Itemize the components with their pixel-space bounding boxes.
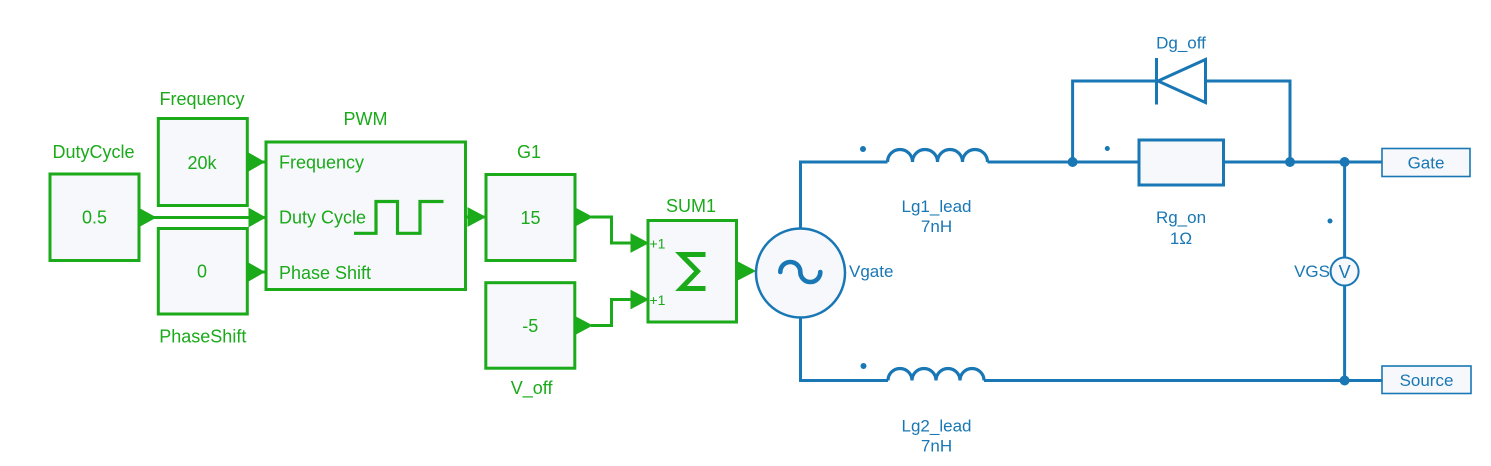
svg-text:Gate: Gate bbox=[1408, 154, 1445, 173]
svg-text:20k: 20k bbox=[187, 153, 217, 173]
output arrowhead of V_off bbox=[575, 317, 592, 335]
wire Vgate top to top rail bbox=[801, 162, 888, 229]
svg-text:0.5: 0.5 bbox=[82, 208, 107, 228]
node junction at VGS branch bottom bbox=[1340, 376, 1350, 386]
svg-text:PWM: PWM bbox=[344, 109, 388, 129]
PWM modulator block bbox=[266, 142, 466, 290]
output arrowhead of DutyCycle bbox=[139, 209, 156, 227]
wire VGS branch lower segment bbox=[1343, 286, 1346, 381]
diode Dg_off triangle bbox=[1158, 60, 1206, 103]
wire left leg of diode branch bbox=[1073, 81, 1156, 162]
svg-text:Dg_off: Dg_off bbox=[1156, 34, 1206, 53]
output arrowhead of SUM1 bbox=[738, 262, 756, 280]
svg-text:Frequency: Frequency bbox=[159, 89, 244, 109]
svg-text:-5: -5 bbox=[522, 316, 538, 336]
wire DutyCycle output to PWM Duty Cycle input bbox=[139, 216, 266, 219]
polarity dot of Rg_on bbox=[1105, 146, 1110, 151]
wire PWM output to G1 input bbox=[466, 216, 487, 219]
wire Vgate bottom to bottom rail bbox=[801, 318, 889, 381]
svg-text:V_off: V_off bbox=[511, 378, 554, 399]
input arrowhead at PWM Frequency port bbox=[248, 153, 265, 172]
svg-text:7nH: 7nH bbox=[921, 436, 952, 455]
svg-text:Rg_on: Rg_on bbox=[1156, 208, 1206, 227]
gain block G1 bbox=[486, 175, 575, 261]
node junction right of diode branch bbox=[1285, 157, 1295, 167]
svg-text:PhaseShift: PhaseShift bbox=[159, 327, 246, 347]
wire VGS branch upper segment bbox=[1343, 162, 1346, 258]
svg-text:1Ω: 1Ω bbox=[1170, 229, 1192, 248]
inductor Lg1_lead bbox=[888, 150, 988, 163]
svg-text:G1: G1 bbox=[517, 142, 541, 162]
terminal Gate bbox=[1382, 149, 1470, 177]
node junction at VGS branch top bbox=[1340, 157, 1350, 167]
svg-text:Frequency: Frequency bbox=[279, 153, 364, 173]
svg-text:SUM1: SUM1 bbox=[666, 196, 716, 216]
svg-text:Phase Shift: Phase Shift bbox=[279, 263, 371, 283]
input arrowhead at SUM1 lower port bbox=[631, 291, 648, 309]
svg-text:7nH: 7nH bbox=[921, 217, 952, 236]
svg-text:DutyCycle: DutyCycle bbox=[52, 142, 134, 162]
input arrowhead at G1 port bbox=[468, 208, 485, 226]
wire bottom rail Lg2_lead to Source terminal bbox=[984, 379, 1382, 382]
svg-text:0: 0 bbox=[197, 262, 207, 282]
wire Frequency output to PWM Frequency input bbox=[247, 161, 266, 164]
constant block PhaseShift bbox=[158, 229, 247, 315]
output arrowhead of G1 bbox=[575, 208, 592, 226]
constant block Frequency bbox=[158, 119, 247, 206]
wire Lg1_lead to Rg_on bbox=[988, 161, 1140, 164]
inductor Lg2_lead bbox=[888, 369, 984, 381]
wire right leg of diode branch bbox=[1205, 81, 1290, 162]
svg-text:Duty Cycle: Duty Cycle bbox=[279, 208, 366, 228]
wire G1 output to SUM1 upper input bbox=[591, 217, 632, 243]
voltmeter VGS bbox=[1331, 258, 1359, 286]
svg-text:Source: Source bbox=[1400, 371, 1454, 390]
sine icon of Vgate bbox=[780, 262, 820, 282]
input arrowhead at SUM1 upper port bbox=[631, 234, 648, 252]
PWM square-wave icon bbox=[354, 202, 444, 234]
svg-text:+1: +1 bbox=[650, 292, 666, 308]
summation block SUM1 bbox=[648, 221, 737, 323]
polarity dot of Lg1_lead bbox=[860, 146, 866, 152]
wire SUM1 output to Vgate bbox=[737, 270, 747, 273]
svg-text:15: 15 bbox=[520, 208, 540, 228]
resistor Rg_on bbox=[1139, 140, 1224, 185]
svg-text:Lg2_lead: Lg2_lead bbox=[902, 417, 972, 436]
controlled voltage source Vgate bbox=[756, 229, 845, 318]
node junction left of diode branch bbox=[1068, 157, 1078, 167]
wire Rg_on to Gate terminal bbox=[1224, 161, 1383, 164]
constant block DutyCycle bbox=[50, 174, 139, 261]
polarity dot of VGS voltmeter bbox=[1328, 219, 1333, 224]
svg-text:+1: +1 bbox=[650, 236, 666, 252]
svg-text:VGS: VGS bbox=[1294, 262, 1330, 281]
wire PhaseShift output to PWM Phase Shift input bbox=[247, 271, 266, 274]
diode Dg_off cathode bar bbox=[1155, 58, 1158, 105]
wire V_off output to SUM1 lower input bbox=[591, 300, 632, 326]
sigma icon of SUM1 bbox=[681, 255, 706, 289]
svg-text:Vgate: Vgate bbox=[849, 262, 893, 281]
svg-text:V: V bbox=[1339, 262, 1351, 282]
svg-text:Lg1_lead: Lg1_lead bbox=[902, 197, 972, 216]
terminal Source bbox=[1382, 366, 1471, 394]
polarity dot of Lg2_lead bbox=[861, 363, 867, 369]
input arrowhead at PWM Duty Cycle port bbox=[249, 209, 265, 227]
constant block V_off bbox=[486, 283, 575, 369]
input arrowhead at PWM Phase Shift port bbox=[248, 263, 265, 282]
